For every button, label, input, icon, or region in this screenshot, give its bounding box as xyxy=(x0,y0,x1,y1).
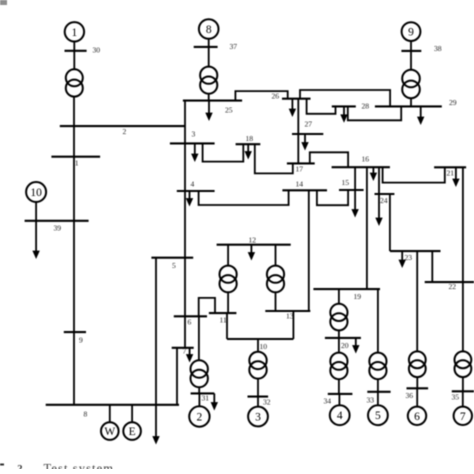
generator G4 xyxy=(330,405,350,425)
generator G1 xyxy=(65,22,84,41)
svg-text:30: 30 xyxy=(93,46,101,55)
wire line 13-14 xyxy=(308,190,310,311)
svg-text:37: 37 xyxy=(230,42,238,51)
svg-text:3: 3 xyxy=(255,412,261,424)
svg-text:2: 2 xyxy=(17,464,22,469)
bus 9 xyxy=(64,331,86,333)
svg-text:17: 17 xyxy=(296,165,304,174)
wire 17-18 xyxy=(255,144,293,173)
svg-text:8: 8 xyxy=(206,24,212,36)
svg-text:32: 32 xyxy=(263,398,271,407)
bus 23 xyxy=(390,250,441,252)
svg-text:7: 7 xyxy=(460,411,466,423)
load arrow bus 16 xyxy=(370,167,377,181)
svg-text:Test system: Test system xyxy=(44,462,115,470)
bus 22 xyxy=(425,281,474,283)
svg-text:10: 10 xyxy=(260,342,268,351)
generator G7 xyxy=(454,407,472,425)
load arrow bus 21 xyxy=(452,167,459,187)
wire line 23-36 xyxy=(416,251,418,351)
svg-text:1: 1 xyxy=(72,27,78,39)
wire line 22-35 xyxy=(462,282,464,351)
load arrow bus 27 xyxy=(301,134,308,151)
wire 25-26 xyxy=(235,91,287,101)
wire line 10-13 xyxy=(292,311,294,339)
load arrow bus 39 xyxy=(32,221,39,259)
svg-text:39: 39 xyxy=(54,224,62,233)
bus 6 xyxy=(174,315,207,317)
wire 26-28 xyxy=(307,99,336,114)
wire G8-bus37 xyxy=(208,39,210,67)
wire T36-bus36 xyxy=(416,377,418,388)
load arrow bus 4 xyxy=(186,191,193,207)
transformer T23-36 xyxy=(409,351,426,377)
wire 28-29 xyxy=(348,106,401,120)
generator G2 xyxy=(189,406,209,426)
wire G10-bus39 xyxy=(35,202,37,221)
bus 36 xyxy=(407,387,429,389)
wire bus12-T11 xyxy=(227,245,229,266)
transformer T6-31 xyxy=(191,360,208,387)
wire line 25-3-4-5-6 vertical xyxy=(184,101,186,317)
bus 30 xyxy=(65,50,87,52)
bus 38 xyxy=(401,50,421,52)
wire line 26-27-17 vertical xyxy=(297,99,299,164)
wire line 21-22 xyxy=(462,167,464,282)
svg-text:4: 4 xyxy=(337,410,343,422)
svg-text:18: 18 xyxy=(246,134,254,143)
load arrow bus 28 xyxy=(340,106,347,122)
bus 2 xyxy=(60,125,185,127)
load arrow bus 29 xyxy=(417,106,424,125)
load arrow bus 24 xyxy=(375,194,382,226)
load arrow bus 8 xyxy=(152,405,159,445)
bus 5 xyxy=(151,257,193,259)
wire bus35-G7 xyxy=(462,391,464,407)
transformer T12-13 xyxy=(267,266,284,293)
bus 27 xyxy=(292,133,323,135)
wire 16-21 xyxy=(383,167,445,182)
page artifact top-left xyxy=(0,0,7,5)
wire G1-bus30 xyxy=(73,42,75,70)
bus 10 xyxy=(227,338,293,340)
svg-text:27: 27 xyxy=(305,120,313,129)
bus 13 xyxy=(265,310,310,312)
wire 16-17 xyxy=(310,152,348,167)
bus 21 xyxy=(434,166,466,168)
wire bus12-T13 xyxy=(275,245,277,266)
svg-text:2: 2 xyxy=(123,127,127,136)
svg-text:16: 16 xyxy=(362,155,370,164)
svg-text:1: 1 xyxy=(75,159,79,168)
caption fragment xyxy=(0,462,114,474)
bus 33 xyxy=(367,391,390,393)
bus 24 xyxy=(375,193,395,195)
bus 7 xyxy=(172,347,194,349)
svg-text:6: 6 xyxy=(188,318,192,327)
load arrow bus 20 xyxy=(352,338,359,354)
svg-text:5: 5 xyxy=(172,261,176,270)
svg-text:9: 9 xyxy=(79,336,83,345)
wire bus8-E xyxy=(131,405,133,423)
wire bus32-G3 xyxy=(257,397,259,407)
svg-text:14: 14 xyxy=(296,180,304,189)
wire T35-bus35 xyxy=(462,377,464,391)
svg-text:29: 29 xyxy=(449,98,457,107)
wire line 24-23 xyxy=(389,194,391,251)
wire T33-bus33 xyxy=(377,379,379,392)
wire bus19-T20 xyxy=(338,289,340,304)
wire 14-15 xyxy=(317,190,348,205)
svg-text:7: 7 xyxy=(183,347,187,356)
load arrow bus 31 xyxy=(211,393,218,410)
wire G9-bus38 xyxy=(410,41,412,70)
bus 1 xyxy=(51,156,100,158)
wire T34-bus34 xyxy=(338,379,340,394)
load arrow bus 15 xyxy=(351,190,358,218)
svg-text:4: 4 xyxy=(191,180,195,189)
wire bus19-T33 xyxy=(377,289,379,353)
load arrow bus 26 xyxy=(289,99,296,117)
svg-text:10: 10 xyxy=(30,187,42,199)
transformer T10-32 xyxy=(249,352,266,379)
transformer T12-11 xyxy=(220,266,237,293)
generator G9 xyxy=(402,22,421,41)
svg-text:E: E xyxy=(129,426,136,438)
load arrow bus 23 xyxy=(399,251,406,268)
svg-text:25: 25 xyxy=(225,106,233,115)
svg-text:12: 12 xyxy=(249,236,257,245)
generator W xyxy=(101,422,119,440)
wire bus34-G4 xyxy=(338,394,340,405)
load arrow bus 18 xyxy=(245,144,252,159)
wire 4-14 xyxy=(199,190,289,205)
generator G8 xyxy=(199,19,219,39)
svg-text:36: 36 xyxy=(406,391,414,400)
wire T30-2 to bus2 xyxy=(73,97,75,127)
bus 35 xyxy=(452,390,474,392)
svg-text:34: 34 xyxy=(324,397,332,406)
wire 3-18 xyxy=(203,143,244,161)
load arrow bus 3 xyxy=(191,143,198,162)
bus 25 xyxy=(183,100,242,102)
bus 11 xyxy=(209,312,237,314)
bus 4 xyxy=(177,190,215,192)
transformer T19-20 xyxy=(330,304,347,331)
wire bus10-T32 xyxy=(257,339,259,352)
bus 29 xyxy=(375,105,442,107)
transformer T19-33 xyxy=(369,353,386,380)
bus 18 xyxy=(236,143,261,145)
wire T37-25 to bus25 xyxy=(208,94,210,101)
bus 39 xyxy=(25,220,89,222)
generator G5 xyxy=(368,405,388,425)
wire line 2-1-39-9-8 vertical xyxy=(73,126,75,405)
wire T11-bus11 xyxy=(227,292,229,313)
bus 14 xyxy=(282,189,327,191)
load arrow bus 12 xyxy=(248,245,255,261)
wire line 5-8 xyxy=(155,258,157,405)
load arrow bus 25 xyxy=(205,101,212,121)
transformer T37-25 xyxy=(200,67,217,94)
bus 15 xyxy=(339,189,364,191)
svg-text:23: 23 xyxy=(405,253,413,262)
bus 31 xyxy=(191,392,215,394)
bus 26 xyxy=(282,98,311,100)
svg-text:22: 22 xyxy=(449,282,457,291)
transformer T38-29 xyxy=(402,70,420,99)
svg-text:8: 8 xyxy=(84,410,88,419)
bus 32 xyxy=(248,396,269,398)
bus 17 xyxy=(287,162,315,164)
wire bus31-G2 xyxy=(198,393,200,406)
transformer T30-2 xyxy=(66,69,83,96)
bus 28 xyxy=(332,105,356,107)
svg-text:15: 15 xyxy=(342,178,350,187)
bus 8 xyxy=(46,404,179,406)
wire 6-11 xyxy=(199,298,215,316)
wire line 16-19 xyxy=(366,167,368,289)
wire T38-29 to bus29 xyxy=(410,98,412,105)
generator G10 xyxy=(26,182,46,202)
wire line 10-11 xyxy=(226,313,228,339)
transformer T20-34 xyxy=(330,353,347,380)
svg-text:5: 5 xyxy=(375,410,381,422)
bus 19 xyxy=(313,288,380,290)
wire T31-bus31 xyxy=(198,387,200,393)
wire T32-bus32 xyxy=(257,379,259,397)
svg-text:9: 9 xyxy=(408,27,414,39)
wire line 16-24 xyxy=(378,167,380,194)
generator G6 xyxy=(408,407,426,425)
svg-text:3: 3 xyxy=(192,130,196,139)
svg-text:2: 2 xyxy=(197,412,203,424)
svg-text:33: 33 xyxy=(367,396,375,405)
svg-text:38: 38 xyxy=(434,44,442,53)
wire bus6-T31 xyxy=(198,316,200,360)
svg-text:28: 28 xyxy=(362,102,370,111)
svg-text:20: 20 xyxy=(341,341,349,350)
svg-text:6: 6 xyxy=(414,411,420,423)
svg-text:26: 26 xyxy=(272,92,280,101)
bus 34 xyxy=(328,393,353,395)
svg-text:24: 24 xyxy=(380,196,388,205)
svg-text:11: 11 xyxy=(220,316,228,325)
wire bus36-G6 xyxy=(416,388,418,407)
wire T20-bus20 xyxy=(338,330,340,338)
wire T13-bus13 xyxy=(275,292,277,311)
bus 16 xyxy=(332,166,390,168)
svg-text:31: 31 xyxy=(202,394,210,403)
wire bus8-W xyxy=(109,405,111,423)
svg-text:35: 35 xyxy=(452,393,460,402)
generator G3 xyxy=(248,407,268,427)
generator E xyxy=(123,422,141,440)
transformer T22-35 xyxy=(455,351,472,377)
wire line 22-23 xyxy=(431,251,433,282)
wire line 7-8 xyxy=(176,348,178,405)
bus 12 xyxy=(217,244,291,246)
bus 3 xyxy=(170,142,215,144)
svg-text:21: 21 xyxy=(447,169,455,178)
load arrow bus 7 xyxy=(186,348,193,363)
wire bus33-G5 xyxy=(377,392,379,406)
wire line 6-7 xyxy=(184,316,186,348)
bus 37 xyxy=(194,46,218,48)
svg-text:19: 19 xyxy=(354,292,362,301)
wire 26-29 xyxy=(300,90,390,106)
bus 20 xyxy=(325,337,361,339)
svg-text:W: W xyxy=(104,426,115,438)
wire line 16-15 xyxy=(354,167,356,190)
wire bus20-T34 xyxy=(338,338,340,353)
